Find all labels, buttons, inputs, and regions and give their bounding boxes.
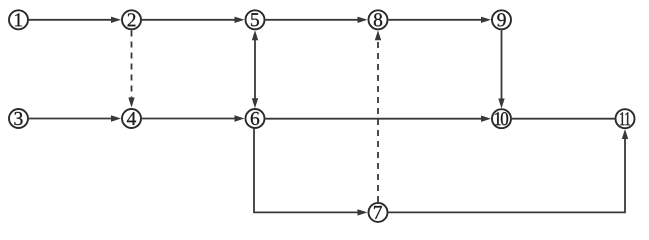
- wire edge 3-4: [29, 115, 121, 121]
- wire dashed edge 2-4: [128, 31, 134, 108]
- node 5: [246, 10, 265, 29]
- wire edge 2-5: [142, 17, 245, 23]
- wire edge 4-6: [142, 115, 245, 121]
- wire dashed edge 7-8: [375, 30, 381, 202]
- node 7: [369, 203, 388, 222]
- wire edge 8-9: [389, 17, 492, 23]
- wire edge 5-8: [266, 17, 368, 23]
- node 8: [369, 10, 388, 29]
- wire edge 6-10: [266, 116, 492, 122]
- node 11: [616, 109, 635, 128]
- wire edge 6-7: [254, 129, 368, 216]
- node 6: [246, 109, 265, 128]
- wire line 10-11: [512, 118, 615, 120]
- wire edge 7-11: [389, 129, 629, 212]
- node 9: [492, 10, 511, 29]
- wire double arrow edge 5-6: [252, 30, 258, 108]
- node 4: [122, 109, 141, 128]
- node 3: [9, 109, 28, 128]
- node 2: [122, 10, 141, 29]
- node 10: [492, 109, 511, 128]
- wire edge 9-10: [498, 30, 504, 108]
- wire edge 1-2: [29, 17, 121, 23]
- node 1: [9, 10, 28, 29]
